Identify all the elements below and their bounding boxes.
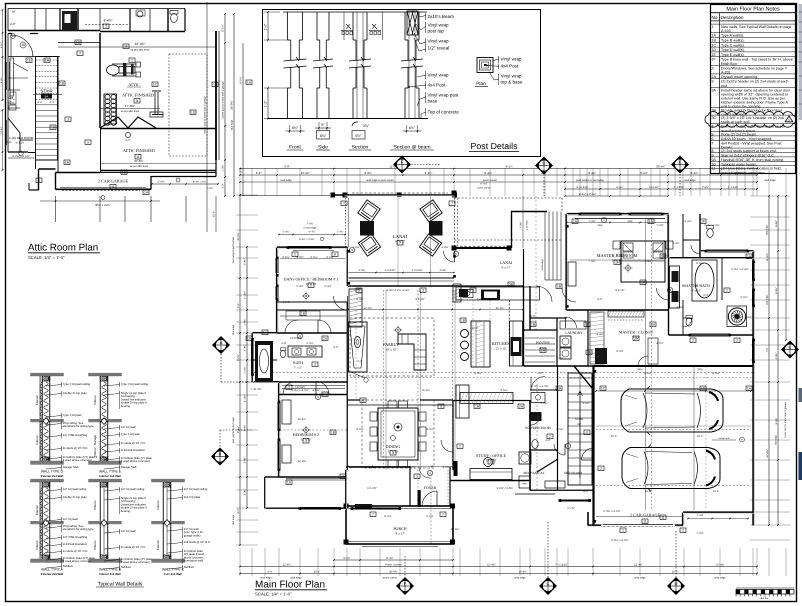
left lower diagonal wall: [8, 118, 20, 152]
door number circles: [349, 247, 354, 252]
section marker D: [535, 157, 553, 175]
svg-text:2: 2: [416, 475, 418, 479]
svg-text:2'-8": 2'-8": [537, 372, 542, 375]
white cores for double-line wall effect: [345, 195, 455, 197]
svg-text:1'-6½": 1'-6½": [244, 318, 247, 325]
post elevation Side: [313, 12, 333, 119]
svg-text:3⅞": 3⅞": [363, 124, 370, 128]
section marker D: [667, 577, 685, 595]
hall door arcs: [536, 286, 552, 302]
baseline to lanai post: [240, 195, 330, 197]
svg-text:12'-0": 12'-0": [213, 211, 216, 218]
svg-text:1: 1: [712, 25, 714, 29]
master bath tub oval: [692, 260, 717, 301]
svg-text:Interior: Interior: [35, 435, 39, 444]
svg-text:10'-4½": 10'-4½": [0, 126, 3, 134]
family/dining cased opening: [348, 404, 454, 406]
svg-text:1D: 1D: [191, 111, 196, 115]
master WC strip: [667, 214, 669, 258]
svg-text:16'-0¼": 16'-0¼": [364, 307, 373, 310]
master bath south wall: [669, 334, 754, 336]
svg-text:3'-4¼" x 4'-0¼": 3'-4¼" x 4'-0¼": [291, 389, 308, 392]
svg-text:4'-0": 4'-0": [10, 22, 16, 26]
lanai2 side dim: [522, 196, 524, 248]
svg-text:Type E wall(s).: Type E wall(s).: [721, 53, 745, 57]
svg-text:UP: UP: [577, 423, 581, 426]
top dimension chain 2: [240, 174, 757, 176]
svg-text:18' x 19': 18' x 19': [386, 348, 397, 352]
svg-text:R-19 batt insulation: R-19 batt insulation: [63, 542, 88, 546]
svg-text:C: C: [789, 345, 792, 350]
svg-text:3'-6½": 3'-6½": [500, 389, 507, 392]
svg-text:5'-4½": 5'-4½": [296, 285, 303, 288]
svg-text:bearing: bearing: [121, 509, 131, 513]
notes table frame: [711, 5, 796, 174]
svg-text:post'r corner: post'r corner: [477, 187, 490, 190]
svg-text:3: 3: [67, 118, 69, 122]
svg-text:11: 11: [661, 516, 665, 520]
svg-text:7: 7: [442, 513, 444, 517]
section marker B: [211, 448, 229, 466]
svg-text:KITCHEN: KITCHEN: [492, 341, 510, 346]
top dimension chain 1: [240, 168, 757, 170]
svg-text:1B: 1B: [661, 255, 665, 259]
section marker F: [393, 156, 411, 174]
svg-text:12' x 16': 12' x 16': [496, 347, 507, 351]
svg-text:2x studs @ 16" O.C.: 2x studs @ 16" O.C.: [63, 446, 89, 450]
svg-text:2: 2: [712, 66, 714, 70]
svg-text:31'-0¾": 31'-0¾": [135, 42, 146, 46]
office window inner line: [293, 250, 334, 252]
svg-text:B: B: [219, 452, 222, 457]
svg-text:1/2" Drywall ceiling: 1/2" Drywall ceiling: [63, 487, 87, 491]
attic right dim chain: [152, 183, 218, 185]
svg-text:2'-0¼": 2'-0¼": [244, 258, 247, 265]
svg-text:Garage: Garage: [93, 435, 97, 445]
foyer walls: [346, 466, 410, 468]
svg-text:4x4 Post: 4x4 Post: [428, 82, 447, 87]
svg-text:36'-4¾": 36'-4¾": [656, 164, 665, 168]
lanai dim band inside: [348, 272, 454, 274]
bottom dim chain 3: [240, 573, 757, 575]
svg-text:16'-0¼": 16'-0¼": [422, 389, 431, 392]
svg-text:Type A wall(s).: Type A wall(s).: [721, 34, 744, 38]
svg-text:9A: 9A: [45, 94, 49, 98]
mechanical equipment: [519, 452, 531, 464]
family fireplace media unit: [349, 322, 368, 372]
svg-text:3: 3: [472, 289, 474, 293]
svg-text:1E: 1E: [712, 53, 717, 57]
svg-text:31'-0¾": 31'-0¾": [134, 159, 143, 163]
svg-text:4'-0¼": 4'-0¼": [244, 344, 247, 351]
svg-text:9'-8 7/8": 9'-8 7/8": [615, 289, 625, 292]
svg-text:4'-4½" 9'-2¼" 4'-4½": 4'-4½" 9'-2¼" 4'-4½": [386, 289, 410, 292]
svg-text:FOYER: FOYER: [424, 486, 437, 490]
marker dotted leads left: [220, 354, 222, 382]
left room bottom walls: [8, 151, 28, 153]
svg-text:2'-0½": 2'-0½": [540, 402, 547, 405]
svg-text:9'-0": 9'-0": [333, 346, 338, 349]
svg-text:4'-5¾": 4'-5¾": [556, 428, 563, 431]
svg-text:LAUNDRY: LAUNDRY: [565, 331, 583, 335]
svg-text:foundation wall): foundation wall): [184, 559, 204, 563]
svg-text:ATTIC: ATTIC: [128, 82, 140, 87]
left dimension 1-2: [267, 88, 269, 119]
dark chimney block: [62, 11, 77, 31]
svg-text:7'-4½": 7'-4½": [644, 260, 651, 263]
svg-text:2x10's Beam: 2x10's Beam: [428, 14, 455, 19]
svg-text:stud bar: stud bar: [760, 597, 769, 600]
svg-text:12'-4¾": 12'-4¾": [634, 563, 643, 566]
svg-text:10'-6": 10'-6": [611, 435, 618, 438]
svg-text:if used above concrete): if used above concrete): [63, 559, 92, 563]
svg-text:Type B wall(s).: Type B wall(s).: [721, 39, 745, 43]
svg-text:2: 2: [459, 445, 461, 449]
left dimension 1-0: [267, 12, 269, 40]
svg-text:WALL TYPE C: WALL TYPE C: [162, 568, 185, 572]
svg-text:3: 3: [422, 289, 424, 293]
svg-text:Typical Wall Details: Typical Wall Details: [98, 582, 143, 588]
svg-text:4'-4½": 4'-4½": [684, 220, 691, 223]
svg-text:Garage Slab: Garage Slab: [63, 465, 79, 469]
left closet shelves: [280, 315, 346, 317]
svg-text:Req: Req: [638, 368, 643, 371]
svg-text:SCALE: 1/4" = 1'-0": SCALE: 1/4" = 1'-0": [28, 255, 65, 260]
svg-text:2: 2: [726, 289, 728, 293]
svg-text:STAIR: STAIR: [40, 89, 52, 94]
svg-text:stud edge: stud edge: [714, 577, 726, 580]
svg-text:D: D: [543, 161, 546, 166]
laundry closet divider: [587, 310, 589, 366]
svg-text:Post Details: Post Details: [471, 141, 519, 151]
svg-text:Type X Drywall: Type X Drywall: [121, 432, 140, 436]
svg-text:5'-0¾": 5'-0¾": [343, 557, 350, 560]
svg-text:1C: 1C: [153, 83, 158, 87]
svg-text:6' x 10': 6' x 10': [16, 142, 25, 145]
marker dotted leads bottom: [404, 556, 406, 577]
svg-text:corner door to frame side of g: corner door to frame side of garage: [204, 96, 207, 134]
svg-text:Drywall return opening.: Drywall return opening.: [721, 75, 758, 79]
svg-text:8'-4½": 8'-4½": [691, 171, 699, 175]
svg-text:Vinyl wrap: Vinyl wrap: [428, 38, 450, 43]
svg-text:10'-4½": 10'-4½": [298, 418, 307, 421]
svg-text:2: 2: [310, 284, 312, 288]
top dimension chain 4 (right side): [565, 188, 757, 190]
svg-text:6'-0¼": 6'-0¼": [0, 77, 3, 83]
svg-text:7'-2": 7'-2": [766, 347, 769, 352]
svg-text:Attic Room Plan: Attic Room Plan: [28, 243, 98, 254]
svg-text:2: 2: [288, 386, 290, 390]
svg-text:8'-0½": 8'-0½": [426, 515, 433, 518]
svg-text:9'-0¾": 9'-0¾": [326, 256, 333, 259]
svg-text:Req: Req: [698, 368, 703, 371]
svg-text:stud edge: stud edge: [514, 577, 526, 580]
lanai south window wall: [348, 277, 454, 279]
right edge neighbor-panel artifacts: [799, 4, 802, 120]
svg-text:4'-0¼": 4'-0¼": [356, 428, 363, 431]
svg-text:7'-4½": 7'-4½": [588, 260, 595, 263]
dining rug dashed: [362, 400, 434, 468]
right dim chain 3: [785, 196, 787, 340]
svg-text:3: 3: [712, 80, 714, 84]
svg-text:2'-1 3/16": 2'-1 3/16": [674, 186, 685, 189]
bedroom2 dotted ceiling line: [280, 429, 347, 431]
garage door opening: [601, 525, 675, 527]
svg-text:16'-0½": 16'-0½": [451, 528, 460, 531]
svg-text:6'-4¾": 6'-4¾": [408, 466, 415, 469]
svg-text:DAN's OFFICE / BEDROOM # 1: DAN's OFFICE / BEDROOM # 1: [284, 277, 339, 282]
study chair: [484, 458, 493, 467]
svg-text:Vinyl wrap: Vinyl wrap: [428, 22, 450, 27]
left dim chain 2: [246, 247, 248, 508]
dim line across attic: [58, 46, 216, 48]
section post inner lines: [356, 12, 358, 118]
callout leaders: [419, 16, 426, 18]
svg-text:2 CAR GARAGE: 2 CAR GARAGE: [630, 513, 661, 518]
svg-text:6'-0½": 6'-0½": [775, 220, 778, 227]
svg-text:bearing: bearing: [121, 404, 131, 408]
svg-text:1B: 1B: [557, 387, 561, 391]
svg-text:post'r center: post'r center: [483, 179, 497, 182]
svg-text:2'-8¾": 2'-8¾": [702, 186, 709, 189]
svg-text:Vinyl wrap post: Vinyl wrap post: [428, 92, 460, 97]
svg-text:2: 2: [622, 529, 624, 533]
attic left wall window bands: [6, 62, 8, 90]
mud door arc top: [531, 377, 545, 391]
upper bath fixtures: [137, 11, 143, 17]
svg-text:Exterior 2x6 Wall: Exterior 2x6 Wall: [41, 572, 64, 576]
attic main space walls: [57, 57, 59, 173]
svg-text:8: 8: [38, 179, 40, 183]
svg-text:Section @ beam: Section @ beam: [393, 145, 430, 151]
svg-text:7'-0¾": 7'-0¾": [306, 223, 313, 226]
porch steps dashes: [360, 543, 440, 545]
wall section WALL TYPE E: [88, 374, 152, 478]
hanger marks on section post: [346, 24, 351, 29]
interior dim chain lines: [348, 309, 523, 311]
2x10 beam X-hatch at top of section@beam: [407, 11, 418, 35]
stair rail line: [33, 94, 62, 96]
kitchen north cooktop dark: [481, 290, 500, 301]
svg-text:7'-0¾": 7'-0¾": [696, 532, 703, 535]
svg-text:4'-4½": 4'-4½": [439, 269, 446, 272]
svg-text:1'-0": 1'-0": [264, 23, 268, 31]
svg-text:Interior: Interior: [93, 540, 97, 549]
foyer dark pier: [418, 490, 421, 507]
svg-text:Subfloor: Subfloor: [63, 564, 73, 568]
ground line / top of concrete: [268, 118, 428, 120]
svg-text:8'-0": 8'-0": [530, 315, 535, 318]
svg-text:2: 2: [549, 435, 551, 439]
dark pier foyer/study: [454, 461, 458, 476]
svg-text:WALL TYPE E: WALL TYPE E: [99, 470, 122, 474]
kitchen upper dashed: [509, 300, 511, 366]
master south wall: [567, 309, 589, 311]
left rooms extra lines: [8, 89, 20, 91]
svg-text:3: 3: [358, 289, 360, 293]
svg-text:4'-0¼": 4'-0¼": [712, 372, 719, 375]
svg-text:4'-4½": 4'-4½": [476, 298, 483, 301]
svg-text:BATH: BATH: [293, 361, 303, 365]
svg-text:1'-2": 1'-2": [264, 100, 268, 108]
svg-text:1B: 1B: [475, 405, 479, 409]
svg-text:9'-4¾" x 4'4¾": 9'-4¾" x 4'4¾": [193, 181, 207, 184]
section marker F: [396, 577, 414, 595]
stair treads: [36, 59, 57, 61]
svg-text:9'-6 7/8": 9'-6 7/8": [367, 487, 377, 490]
svg-text:36'-0": 36'-0": [472, 327, 479, 330]
svg-text:1C: 1C: [712, 43, 717, 47]
svg-text:30'-4¾": 30'-4¾": [389, 570, 398, 573]
svg-text:3'-4": 3'-4": [267, 570, 272, 573]
entry door arc: [11, 35, 33, 57]
family sectional sofa: [398, 334, 426, 370]
svg-text:MASTER : CLOSET: MASTER : CLOSET: [619, 330, 654, 335]
svg-text:around/opposite water riser.: around/opposite water riser.: [721, 171, 765, 175]
svg-text:1/2" Drywall ceiling: 1/2" Drywall ceiling: [184, 487, 208, 491]
svg-text:Exterior: Exterior: [35, 395, 39, 405]
garage bottom walls: [588, 524, 683, 526]
svg-text:9'-0¾": 9'-0¾": [296, 256, 303, 259]
svg-text:3'-8 7/8": 3'-8 7/8": [415, 298, 425, 301]
office south wall / hall: [277, 332, 348, 334]
ceiling fans circles: [396, 328, 401, 333]
svg-text:7: 7: [451, 202, 453, 206]
svg-text:stud edge: stud edge: [684, 179, 696, 182]
dormer zigzag walls: [100, 117, 128, 128]
nightstands: [613, 241, 620, 249]
svg-text:6½": 6½": [409, 126, 416, 130]
svg-text:9'-0¾" / 4'-0¾": 9'-0¾" / 4'-0¾": [497, 487, 514, 490]
garage door dashed: [62, 189, 140, 191]
svg-text:pos. corner to stud edge: pos. corner to stud edge: [232, 416, 235, 442]
svg-text:9'-0¼": 9'-0¼": [282, 256, 289, 259]
master dresser: [568, 262, 576, 286]
svg-text:Interior 2x4 Wall: Interior 2x4 Wall: [99, 572, 121, 576]
svg-text:DINING: DINING: [386, 444, 401, 449]
svg-text:2: 2: [736, 339, 738, 343]
section@beam inner lines: [408, 12, 410, 118]
svg-text:11'-0¾": 11'-0¾": [237, 232, 240, 240]
front door arc: [422, 491, 437, 506]
svg-text:Subfloor: Subfloor: [184, 565, 194, 569]
svg-text:Exterior: Exterior: [156, 540, 160, 550]
post elevation Front: [284, 12, 307, 119]
bedroom2 top wall: [279, 394, 348, 396]
laundry counter: [560, 321, 586, 329]
svg-text:6'-0¾": 6'-0¾": [240, 76, 243, 83]
svg-text:1'-4¾": 1'-4¾": [337, 230, 344, 233]
svg-text:1B: 1B: [531, 323, 535, 327]
master wing top wall: [567, 213, 669, 215]
svg-text:Type C wall(s).: Type C wall(s).: [721, 43, 745, 47]
section flanking verticals: [343, 12, 345, 40]
closet wall left wing: [277, 309, 348, 311]
bedroom2 closet shelves: [282, 385, 345, 387]
svg-text:8'-4½": 8'-4½": [775, 417, 778, 424]
svg-text:4'-7¾": 4'-7¾": [735, 171, 743, 175]
lanai west boundary dotted pair: [345, 198, 347, 247]
left bath tub dark: [255, 341, 273, 382]
post elevation Section: [349, 12, 371, 119]
svg-text:10'-4½": 10'-4½": [766, 449, 769, 458]
svg-text:10'-4¾": 10'-4¾": [487, 563, 496, 566]
svg-text:custom trim: custom trim: [718, 437, 729, 440]
svg-text:8'-4": 8'-4": [703, 294, 708, 297]
svg-text:2: 2: [600, 467, 602, 471]
section marker A: [212, 336, 230, 354]
post elevation Section @ beam: [401, 12, 423, 119]
svg-text:as per attic truss: as per attic truss: [121, 110, 140, 113]
svg-text:STAIR: STAIR: [575, 417, 583, 421]
svg-text:9'-4¾": 9'-4¾": [103, 19, 112, 23]
section marker E: [671, 156, 689, 174]
hall wall below top band: [29, 56, 60, 58]
svg-text:PANTRY: PANTRY: [536, 341, 551, 345]
svg-text:corner door to frame wall of g: corner door to frame wall of garage: [222, 81, 225, 119]
family rug dashed: [350, 318, 434, 376]
svg-text:stud edge to post center: stud edge to post center: [366, 179, 394, 182]
svg-text:7'-0¾": 7'-0¾": [207, 187, 214, 190]
family north wall continues kitchen: [460, 285, 524, 287]
svg-text:4'-0¼": 4'-0¼": [775, 352, 778, 359]
kitchen sink north: [463, 290, 473, 298]
svg-text:3'-0": 3'-0": [357, 360, 362, 363]
svg-text:C: C: [547, 581, 550, 586]
svg-text:10'-6": 10'-6": [314, 570, 321, 573]
svg-text:12'-4¾": 12'-4¾": [283, 563, 292, 566]
windows: [288, 245, 330, 247]
svg-text:post top: post top: [428, 28, 445, 33]
svg-text:4'-4½": 4'-4½": [356, 298, 363, 301]
master closet shelves hatched: [590, 311, 658, 364]
svg-text:if used above concrete): if used above concrete): [121, 459, 150, 463]
family north wall: [348, 285, 460, 287]
width dims under posts: [289, 125, 291, 133]
svg-text:36'-0¾": 36'-0¾": [230, 100, 234, 109]
exercise equipment: [107, 62, 141, 77]
svg-text:3: 3: [392, 451, 394, 455]
svg-text:11: 11: [643, 520, 647, 524]
svg-text:A: A: [220, 340, 223, 345]
svg-text:6'-0¾": 6'-0¾": [222, 24, 225, 31]
svg-text:4'-4½": 4'-4½": [358, 269, 365, 272]
svg-text:1B: 1B: [122, 171, 126, 175]
svg-text:2x studs @ 16" O.C.: 2x studs @ 16" O.C.: [63, 549, 89, 553]
svg-text:4'-0¾": 4'-0¾": [442, 466, 449, 469]
svg-text:WH: WH: [523, 483, 527, 486]
svg-text:WALL TYPE A: WALL TYPE A: [41, 568, 63, 572]
attic dim ticks below garage: [55, 196, 57, 222]
svg-text:1B: 1B: [60, 82, 64, 86]
svg-text:(D) BED ROOM: (D) BED ROOM: [12, 136, 34, 140]
svg-text:11'-0¾": 11'-0¾": [766, 253, 769, 261]
svg-text:10'-6": 10'-6": [697, 435, 704, 438]
dimension extension lines top: [240, 168, 786, 196]
bath jog walls: [253, 332, 278, 334]
utility south wall: [530, 490, 594, 492]
svg-text:Type X Drywall: Type X Drywall: [63, 413, 82, 417]
svg-text:it used above concrete): it used above concrete): [63, 458, 92, 462]
svg-text:1B: 1B: [461, 319, 465, 323]
svg-text:36'-0¼": 36'-0¼": [496, 307, 505, 310]
svg-text:WALL TYPE D: WALL TYPE D: [41, 470, 64, 474]
pantry walls: [524, 329, 558, 331]
svg-text:Lanai edge: Lanai edge: [541, 258, 544, 271]
svg-text:3'-0": 3'-0": [256, 171, 262, 175]
attic garage bottom wall: [56, 188, 152, 190]
svg-text:E: E: [679, 160, 682, 165]
